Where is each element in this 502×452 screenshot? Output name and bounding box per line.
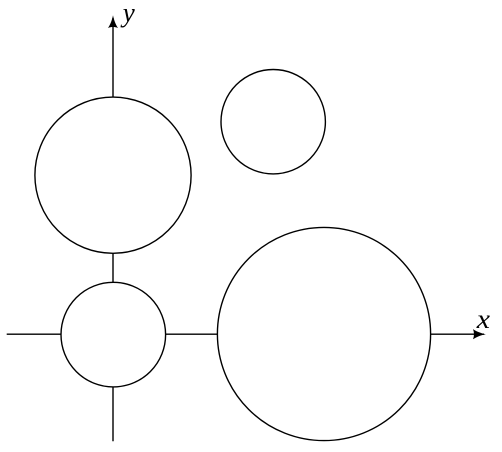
svg-text:y: y [120, 0, 135, 27]
arrowhead of y-axis [108, 15, 118, 28]
circle C4 bottom-right (radius 2u) [217, 227, 430, 440]
circle C2 top-right (radius 1u) [221, 70, 325, 174]
wire: x-axis line [7, 333, 484, 335]
circle C3 at origin (radius 1u) [61, 282, 166, 387]
arrowhead of x-axis [473, 329, 486, 339]
wire: y-axis line [112, 18, 114, 441]
circle C1 top-left (radius 1.5u) [35, 97, 191, 253]
svg-text:x: x [476, 304, 490, 334]
